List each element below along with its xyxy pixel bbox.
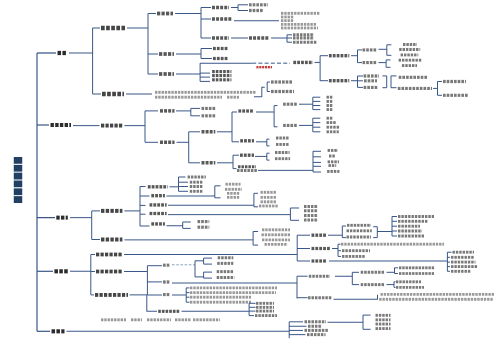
bracket 中期客户调研 children: [357, 76, 359, 87]
wire 整合推广 right: [73, 125, 100, 127]
bracket 开盘波段 children: [394, 268, 396, 274]
wire 分类梯度 right: [334, 298, 378, 300]
wire 价格调整 right: [124, 271, 147, 273]
wire to 再生设计: [392, 230, 397, 232]
node 涨价价格策略: [451, 256, 474, 259]
wire to IAD分析: [392, 225, 397, 227]
bracket 定性调研 children: [386, 45, 388, 56]
wire to 地面渠道: [189, 162, 200, 164]
bracket upper pair: [203, 258, 205, 264]
wire 沟通渠道 right: [177, 141, 189, 143]
node 硬件展示: [101, 209, 122, 213]
bracket 小区间展示 children: [289, 208, 291, 220]
node 产权定位: [212, 36, 229, 40]
wire to 产权定位: [201, 37, 211, 39]
note 工地体验区: [261, 200, 277, 203]
wire paragraph step up: [254, 87, 265, 97]
wire to 客户年龄定位: [200, 80, 210, 82]
note 洋房别墅叠拼 row5: [281, 27, 318, 30]
node 持续销售性推介: [361, 283, 385, 286]
node 商场: [329, 164, 337, 167]
wire to 定价: [147, 265, 162, 267]
node 后期扩展: [102, 92, 124, 96]
node 机会定位: [213, 57, 228, 60]
wire block stub top: [215, 185, 221, 187]
node E-mail媒体: [327, 130, 339, 133]
wire brace bottom-left stub: [382, 87, 386, 89]
wire to 商场: [313, 165, 321, 167]
wire note stub3: [186, 296, 189, 298]
bracket 展点环境 children: [312, 151, 314, 172]
node 调价: [163, 280, 170, 283]
bracket 产品 children: [92, 28, 94, 94]
note 湖水体验区: [261, 196, 277, 199]
note 竞争导向定价法: [347, 236, 372, 239]
node 销售内场促进手段: [305, 329, 329, 332]
wire 促销 right: [172, 294, 186, 296]
wire to 业绩考核制度: [289, 321, 303, 323]
wire to 产权价值问题处理: [267, 81, 270, 83]
wire to 推广活动展示: [179, 176, 186, 178]
node 分期补偿: [256, 310, 274, 313]
wire 销售中心展示 right: [170, 186, 179, 188]
node 定价策略: [96, 253, 122, 257]
note 大地广告牌: [225, 188, 242, 191]
node 安全预案: [256, 302, 274, 305]
node 推广活动展示: [188, 176, 206, 179]
wire to DM直投: [313, 122, 321, 124]
wire to 客户价值体系表: [438, 81, 443, 83]
wire 前期客户调研 right: [351, 55, 358, 57]
note 高层现代点式 row1: [281, 12, 320, 15]
wire to 客户定位: [148, 73, 158, 75]
node 产权价值问题处理: [271, 80, 293, 83]
wire block stub top: [386, 59, 390, 61]
node 地面渠道: [202, 161, 216, 165]
wire to 价格调整: [91, 271, 95, 273]
wire to 社区: [313, 156, 321, 158]
wire 持续销售 right: [387, 284, 395, 286]
wire to 硬件展示: [92, 210, 100, 212]
note 促销策略 row1: [190, 286, 277, 289]
wire to 样板房展示: [140, 204, 146, 206]
wire to 大规模公开发售: [297, 275, 308, 277]
note 自动调价: [147, 318, 171, 321]
node 客户价值问题处理: [271, 90, 294, 93]
node 心理点定价: [451, 270, 471, 273]
wire note stub2: [186, 292, 189, 294]
wire edge 客户区域定位: [200, 62, 252, 64]
wire to 园林绿化: [201, 7, 211, 9]
note 大堂精装区: [259, 205, 279, 208]
wire to 市场量收入全面价格体系点: [395, 267, 399, 269]
note 工地围挡: [226, 183, 241, 186]
node 关适时调整: [255, 314, 277, 317]
wire 中期客户调研 right: [351, 80, 358, 82]
wire 付款方式调整 long right: [182, 310, 250, 312]
node 社区: [329, 155, 335, 158]
wire 软件展示 long right: [124, 239, 253, 241]
node 客户地图: [364, 74, 379, 77]
node 一房一价表: [342, 255, 365, 258]
node 网络上传: [276, 143, 289, 146]
wire to 市场价值回报价值养成: [395, 273, 399, 275]
node 认购流程: [376, 318, 391, 321]
note 促销策略 row3: [190, 296, 251, 299]
bracket 客户沟通 children: [144, 111, 146, 142]
wire to 接待展示: [179, 190, 189, 192]
node 滞重库存量: [398, 220, 428, 223]
wire right stub bottom: [373, 237, 377, 239]
note 推售模型 row2: [379, 298, 493, 301]
bracket 硬件展示 children: [139, 187, 141, 227]
wire to 土地价值: [238, 10, 248, 12]
node 产品定位: [157, 12, 173, 16]
wire 开盘波段 right: [387, 271, 395, 273]
wire block stub bottom: [253, 244, 258, 246]
node 产品类型定位: [212, 17, 232, 21]
node 海报免费站: [275, 151, 290, 154]
bracket 问题处理 pair: [266, 82, 268, 92]
wire to 竞争定位: [201, 48, 212, 50]
wire to 沟通内容: [145, 110, 158, 112]
node 竞争定位: [213, 47, 228, 50]
bracket 定价法 children: [391, 217, 393, 237]
bracket 市场定位 children: [200, 49, 202, 59]
bracket 价格调整 children: [146, 266, 148, 295]
wire to 安全预案: [249, 302, 255, 304]
wire to 地盘展示: [140, 195, 150, 197]
wire 成本定价 right: [328, 234, 342, 236]
wire to 会所展示: [140, 225, 150, 227]
node 调整设计: [256, 306, 274, 309]
node PTV免费站: [275, 157, 290, 160]
wire to 回迁区客户定位: [391, 75, 397, 77]
node 客户价值体系表: [443, 80, 466, 83]
node 生命周期调整: [217, 262, 233, 265]
wire to 售卡展示: [179, 181, 189, 183]
node 整体小组座谈: [399, 48, 420, 51]
node 客户管理: [376, 323, 391, 326]
note 短信媒体展示: [265, 243, 288, 246]
wire 客户沟通 right: [124, 125, 145, 127]
node 沟通渠道: [160, 141, 175, 145]
note 小高层 row3: [281, 19, 294, 22]
node 卖点整理: [202, 114, 216, 117]
wire 园林绿化 right: [231, 7, 238, 9]
wire to 异业联盟: [313, 161, 321, 163]
wire block stub top: [387, 44, 392, 46]
wire to 客户地图: [358, 75, 364, 77]
node （关系营销）: [237, 169, 257, 172]
node 巡展要点: [240, 154, 254, 157]
bracket 巡展要点 children: [266, 153, 268, 160]
node 户外: [327, 104, 334, 107]
wire to 客户资金定位: [200, 76, 210, 78]
wire trunk to 销售: [37, 330, 50, 332]
note 人员媒体展示: [262, 238, 290, 241]
node 样板房展示: [150, 203, 167, 206]
node 广告调查: [304, 209, 318, 212]
wire note stub1: [186, 287, 189, 289]
note 后期扩展说明 row2: [155, 96, 222, 99]
wire to 税费结转: [392, 235, 397, 237]
node 调整价格策略: [451, 261, 476, 264]
wire to 定性调研: [358, 49, 363, 51]
wire block stub top: [253, 231, 258, 233]
bracket 定价法组 right: [376, 227, 378, 238]
node 销售: [52, 329, 65, 333]
note 天降危机期: [101, 318, 126, 321]
wire 产品类型定位 right: [234, 20, 279, 22]
wire block stub bottom: [267, 159, 270, 161]
node 新媒体: [276, 137, 289, 140]
note 后期扩展说明 row1: [155, 91, 256, 94]
node 对客户价值体系的调查: [398, 87, 432, 90]
bracket 促销 notes: [185, 288, 187, 302]
node 沟通内容: [160, 109, 175, 113]
node 大客户: [328, 149, 338, 152]
bracket 调查 children: [437, 82, 439, 96]
node 中期客户调研: [329, 79, 349, 82]
node 整合推广: [51, 123, 72, 127]
node 价格: [54, 269, 67, 273]
node 价格调整: [96, 270, 122, 274]
node 价格策略: [312, 259, 328, 262]
node 深度访谈: [403, 43, 417, 46]
wire 后期扩展 right: [126, 93, 152, 95]
wire trunk to 产品: [37, 52, 56, 54]
node 展点环境: [238, 165, 256, 168]
bracket 产品定位 children: [200, 8, 202, 39]
root node 营销五大环节 (vertical title): [14, 157, 23, 204]
node 产权性质建议: [249, 36, 269, 40]
node 市场量收入全面价格体系点: [399, 266, 435, 269]
bracket 持续销售 children: [393, 282, 395, 288]
bracket 媒体投放 children: [273, 106, 275, 127]
wire lower pair corner: [195, 276, 204, 278]
wire to 后期扩展: [93, 93, 101, 95]
wire to 小区间展示: [140, 213, 146, 215]
node 大规模公开发售: [309, 275, 330, 278]
wire block stub top: [363, 314, 371, 316]
bracket 市场定价 children: [337, 244, 339, 256]
wire 前期定位 right: [127, 27, 148, 29]
note 网络媒体展示: [262, 233, 291, 236]
wire note stub4: [186, 301, 189, 303]
bracket 高空媒体 children: [231, 112, 233, 142]
bracket 前期定位 children: [147, 14, 149, 75]
wire 小众媒体 right: [299, 124, 313, 126]
node 电话访问: [402, 64, 417, 67]
node 小众媒体: [283, 124, 298, 127]
node 地盘展示: [151, 194, 165, 197]
wire to 辅助展示: [183, 221, 191, 223]
wire 调价 long right: [172, 282, 297, 284]
bracket 沟通渠道 children: [188, 132, 190, 163]
node 园林展示: [304, 219, 318, 222]
node 网络: [327, 100, 334, 103]
wire to 分类梯度推售模型: [297, 297, 308, 299]
node 生活展示: [198, 226, 210, 229]
node 周期调整: [218, 256, 234, 259]
wire 客户定位 right: [176, 73, 200, 75]
note 促销策略 row4: [190, 301, 251, 304]
wire to 形象定位: [191, 107, 200, 109]
bracket 定量调研 children: [385, 60, 387, 67]
wire 媒体投放 right: [256, 111, 274, 113]
bracket 分类梯度 notes: [377, 295, 379, 300]
wire to 高空媒体: [189, 131, 200, 133]
node 定性调研: [363, 48, 378, 51]
node 小区间展示: [150, 212, 167, 215]
wire 沟通内容 right: [176, 110, 191, 112]
wire 展点环境 long right: [258, 169, 313, 171]
wire to 因素行: [338, 243, 341, 245]
bracket 定价 children: [194, 261, 196, 277]
node 案场管理: [376, 314, 391, 317]
wire 调查 right: [433, 87, 438, 89]
wire to 楼层绝对极差: [338, 250, 341, 252]
bracket 定价策略 children: [296, 235, 298, 261]
wire to 以产品能力与趋势为重: [394, 286, 396, 288]
node 商业形态: [293, 33, 314, 36]
bracket 付款方式 children: [248, 303, 250, 315]
node 销售体系: [308, 325, 322, 328]
bracket 客户定位 children: [199, 63, 201, 81]
wire to 报纸: [313, 96, 321, 98]
node 市场价值回报价值养成: [399, 272, 434, 275]
node 定价: [163, 264, 170, 267]
note 精神堡垒: [227, 196, 240, 199]
wire to 客户价值点购买表: [438, 94, 443, 96]
node 楼层绝对极差: [342, 249, 370, 252]
node 成本定价: [312, 234, 327, 237]
node 再生设计: [398, 230, 422, 233]
trunk vertical: [36, 53, 38, 331]
wire 产品 right: [69, 52, 93, 54]
wire to 巡展联盟: [313, 171, 321, 173]
wire 大众媒体 right: [299, 103, 313, 105]
bracket lower pair: [203, 272, 205, 278]
bracket 销售 children: [288, 322, 290, 338]
node 形象定位: [202, 107, 216, 110]
label 重新确定工作 (red): [256, 66, 272, 68]
wire 小区间展示 long right: [168, 214, 290, 216]
wire block stub bottom: [254, 206, 258, 208]
wire to 销售内场促进手段: [289, 329, 303, 331]
node 网上调查: [364, 86, 378, 89]
node 土地价值: [249, 9, 263, 12]
note 成本导向定价法: [347, 224, 371, 227]
node 分类梯度推售模型: [308, 296, 332, 299]
bracket 发售 children: [351, 272, 353, 284]
wire to 沟通渠道: [145, 141, 158, 143]
wire 会所展示 right: [167, 225, 183, 227]
note 楼体条幅: [227, 192, 240, 195]
node 经济技术指标分析: [398, 215, 434, 218]
wire to 前期定位: [93, 27, 100, 29]
wire block stub top: [267, 152, 270, 154]
wire to 定价策略: [91, 254, 95, 256]
wire 市场定位 right: [176, 53, 201, 55]
wire to 以市场需求为核心: [394, 281, 396, 283]
node 回迁风险形态: [293, 41, 317, 44]
node 以市场需求为核心: [396, 280, 421, 283]
wire upper pair corner: [195, 260, 204, 262]
wire block stub bottom: [386, 66, 390, 68]
wire to 前期客户调研: [320, 55, 328, 57]
wire to 媒体投放: [232, 111, 237, 113]
wire left stub top: [342, 225, 346, 227]
node 客户定位: [159, 72, 174, 76]
bracket 样板房展示 notes: [253, 193, 255, 207]
node 媒体投放: [238, 109, 254, 112]
wire to 机会定位: [201, 58, 212, 60]
bracket 定价法组 left: [341, 226, 343, 238]
wire 定性调研 right: [379, 48, 387, 50]
node 售卡展示: [190, 181, 203, 184]
node 竞争回应价格策略: [451, 265, 478, 268]
wire left stub bottom: [342, 237, 346, 239]
wire to 客户价值问题处理: [267, 91, 270, 93]
wire to 展会: [313, 109, 321, 111]
bracket 软件展示 notes: [252, 232, 254, 246]
node 高空媒体: [202, 130, 216, 134]
wire 样板房展示 long right: [168, 204, 254, 206]
bracket 小众媒体 children: [312, 118, 314, 132]
wire to 短信: [313, 117, 321, 119]
wire 客户区域定位 to 客户需求调研 (dashed): [252, 62, 290, 64]
wire to 竞争形态: [287, 37, 292, 39]
wire to 市场定价: [297, 248, 310, 250]
node 头脑风暴会: [401, 53, 419, 56]
node 软件展示: [101, 237, 122, 241]
wire to 风险保障机制: [91, 294, 94, 296]
wire to 价格策略: [297, 260, 310, 262]
wire 定价法组 right: [377, 231, 392, 233]
wire to 客户价值定位: [200, 72, 210, 74]
wire block stub top: [254, 192, 258, 194]
bracket 地盘展示 notes: [214, 186, 216, 198]
wire 产权性质建议 right: [271, 37, 287, 39]
wire to 生命周期调整: [204, 263, 212, 265]
wire to 网络: [313, 100, 321, 102]
wire 风险保障机制 down to 付款方式调整: [130, 295, 158, 311]
note 楼体字体验: [261, 191, 277, 194]
wire to 参观展示: [179, 186, 189, 188]
wire 地面渠道 right: [217, 162, 233, 164]
node 大众媒体: [283, 103, 298, 106]
node 房源价格调整: [217, 270, 234, 273]
node 行销拓客: [364, 79, 377, 82]
wire to 销售中心展示: [140, 186, 146, 188]
wire 展示 right: [70, 217, 92, 219]
wire to 对客户价值体系的调查: [391, 87, 397, 89]
node 前期客户调研: [329, 54, 349, 57]
node DM直投: [327, 121, 337, 124]
wire to 自然资源价值: [238, 4, 248, 6]
wire to 销售教练技巧: [289, 334, 305, 336]
brace left-open to results: [390, 76, 392, 88]
node 客户沟通: [101, 124, 122, 128]
node 客户年龄定位: [212, 78, 231, 81]
note 报纸媒体展示: [262, 228, 290, 231]
wire to 调价: [147, 281, 162, 283]
wire 高空媒体 right: [217, 131, 232, 133]
node 降价价格策略: [453, 251, 475, 254]
bracket 销售中心展示 children: [178, 177, 180, 191]
